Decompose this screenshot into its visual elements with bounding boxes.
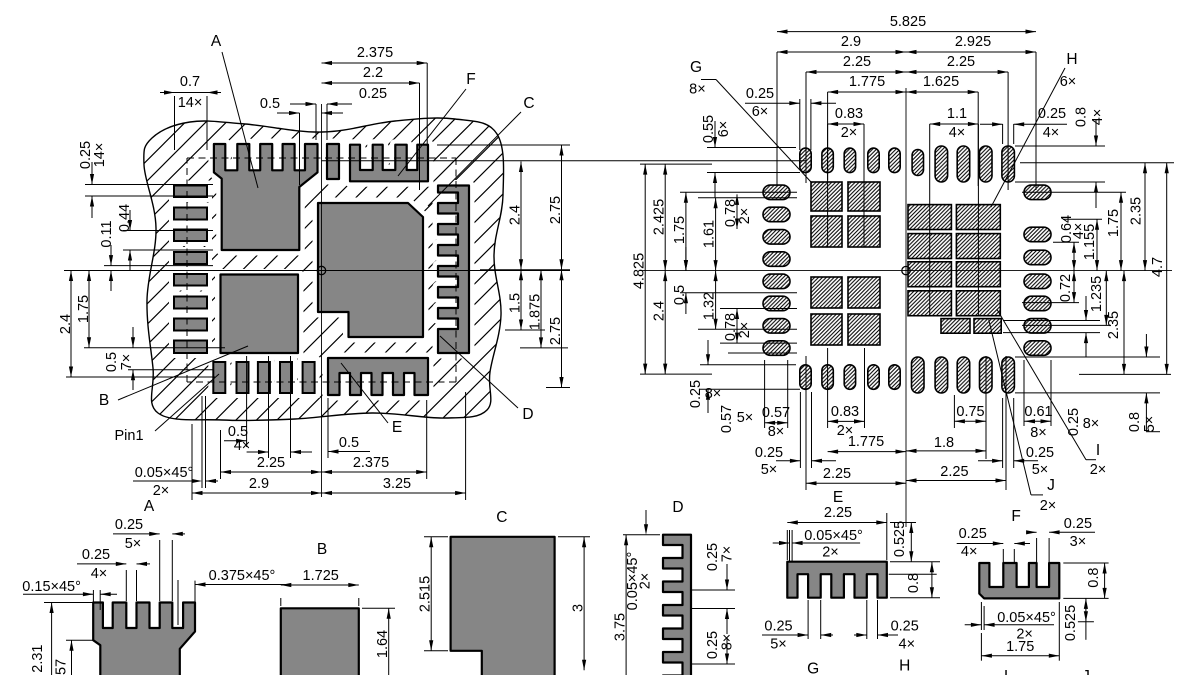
svg-text:B: B <box>99 392 109 409</box>
svg-text:2.35: 2.35 <box>1106 311 1122 339</box>
right view vertical centerline <box>905 88 907 527</box>
pad (small top center) <box>327 144 339 179</box>
label A leader <box>211 33 258 188</box>
dim 3.25 (bottom) <box>322 392 466 500</box>
svg-text:2×: 2× <box>737 322 753 339</box>
svg-text:7×: 7× <box>119 354 135 371</box>
dim 0.25 (top gap) <box>290 86 387 140</box>
svg-text:0.525: 0.525 <box>1063 605 1079 641</box>
svg-text:2×: 2× <box>822 545 839 561</box>
detail E dim 2.25 <box>787 505 887 560</box>
svg-text:F: F <box>1011 508 1020 525</box>
svg-text:0.72: 0.72 <box>1058 274 1074 302</box>
dim 1.32 (left lower) <box>698 271 797 330</box>
svg-text:H: H <box>1066 51 1077 68</box>
dim 1.1 4x (top) <box>930 106 979 316</box>
detail A dim 0.25 5x <box>113 517 185 601</box>
label F leader <box>398 71 476 176</box>
svg-text:0.7: 0.7 <box>180 74 200 90</box>
detail D pad <box>663 535 691 675</box>
svg-text:2.25: 2.25 <box>940 464 968 480</box>
svg-text:0.25: 0.25 <box>1064 516 1092 532</box>
svg-text:J: J <box>1082 668 1090 675</box>
svg-text:2.4: 2.4 <box>652 301 668 321</box>
dim 1.625 (top) <box>906 74 978 186</box>
svg-text:F: F <box>466 71 475 88</box>
svg-text:2.4: 2.4 <box>508 205 524 225</box>
svg-text:0.75: 0.75 <box>956 404 984 420</box>
svg-text:0.83: 0.83 <box>831 404 859 420</box>
svg-text:C: C <box>496 509 507 526</box>
svg-text:H: H <box>899 658 910 675</box>
detail D dim 0.25 7x <box>692 543 736 634</box>
svg-text:2×: 2× <box>153 483 170 499</box>
svg-text:0.57: 0.57 <box>762 405 790 421</box>
svg-text:0.5: 0.5 <box>339 435 359 451</box>
dim 1.61 (left upper) <box>698 198 797 271</box>
bottom pad row (5 small pads) <box>208 357 319 398</box>
svg-text:0.25: 0.25 <box>115 517 143 533</box>
detail D dim 3.75 <box>613 535 660 675</box>
svg-text:0.25: 0.25 <box>359 86 387 102</box>
svg-text:2.25: 2.25 <box>843 54 871 70</box>
svg-text:2×: 2× <box>638 573 654 590</box>
svg-text:0.57: 0.57 <box>54 659 70 675</box>
svg-text:0.05×45°: 0.05×45° <box>135 465 194 481</box>
svg-text:14×: 14× <box>178 95 203 111</box>
dim 0.5 (top) <box>260 96 343 185</box>
svg-text:5×: 5× <box>1032 462 1049 478</box>
detail A dim 0.25 4x <box>77 547 150 601</box>
svg-text:2.2: 2.2 <box>363 65 383 81</box>
svg-text:3×: 3× <box>1070 534 1087 550</box>
svg-text:2.35: 2.35 <box>1129 197 1145 225</box>
svg-text:A: A <box>144 498 155 515</box>
detail B dim 1.64 <box>362 608 395 675</box>
svg-text:E: E <box>392 419 402 436</box>
dim 2.25 (bottom-right) <box>906 356 1006 490</box>
svg-text:8×: 8× <box>1083 416 1100 432</box>
svg-text:0.25: 0.25 <box>764 619 792 635</box>
svg-text:5×: 5× <box>125 536 142 552</box>
svg-text:0.11: 0.11 <box>99 220 115 247</box>
dim 2.425 (left upper) <box>652 164 668 271</box>
svg-text:2.4: 2.4 <box>58 314 74 334</box>
label B leader <box>99 346 248 409</box>
svg-text:6×: 6× <box>1060 74 1077 90</box>
dim 2.4 (left lower) <box>652 271 668 375</box>
package body outline (hatched break-out blob) <box>144 118 504 421</box>
label D leader <box>440 336 534 423</box>
svg-text:0.05×45°: 0.05×45° <box>997 610 1056 626</box>
svg-text:0.25: 0.25 <box>1038 106 1066 122</box>
svg-text:2×: 2× <box>1040 498 1057 514</box>
svg-text:0.525: 0.525 <box>892 521 908 557</box>
detail E dim 0.25 4x (right) <box>854 600 919 653</box>
svg-text:7×: 7× <box>720 546 736 563</box>
svg-text:1.75: 1.75 <box>1006 639 1034 655</box>
svg-text:3.25: 3.25 <box>383 476 411 492</box>
dim 4.825 (far left) <box>632 164 712 374</box>
dim 1.775 (bottom) <box>828 434 906 454</box>
dim 1.155 (right upper) <box>1063 219 1102 270</box>
dim 0.78 2x (left upper) <box>723 194 753 229</box>
svg-text:5×: 5× <box>1142 416 1158 433</box>
dim 0.25 4x (top-right) <box>980 106 1067 144</box>
dim 2.4 (left) <box>58 271 215 378</box>
svg-text:2.75: 2.75 <box>548 196 564 224</box>
detail F title <box>1011 508 1020 525</box>
svg-text:0.25: 0.25 <box>688 380 704 408</box>
bottom pad row short (5x) <box>800 365 900 390</box>
dim 1.8 (bottom-right) <box>906 356 986 459</box>
detail C dim 3 <box>558 537 590 671</box>
label G leader <box>689 59 811 182</box>
svg-text:E: E <box>833 489 843 506</box>
svg-text:1.775: 1.775 <box>849 74 885 90</box>
svg-text:1.725: 1.725 <box>303 568 339 584</box>
svg-text:2.925: 2.925 <box>955 34 991 50</box>
svg-text:0.61: 0.61 <box>1024 404 1052 420</box>
svg-text:0.25: 0.25 <box>1066 408 1082 436</box>
svg-text:0.25: 0.25 <box>891 619 919 635</box>
pad D (right-side comb pad) <box>438 186 469 354</box>
svg-text:1.75: 1.75 <box>1106 209 1122 237</box>
svg-text:5×: 5× <box>761 462 778 478</box>
svg-text:4×: 4× <box>234 438 251 454</box>
svg-text:0.8: 0.8 <box>906 573 922 593</box>
dim 0.5 7x (left-bottom) <box>104 327 213 390</box>
label C leader <box>428 95 535 206</box>
svg-text:0.25: 0.25 <box>755 445 783 461</box>
svg-text:4×: 4× <box>1071 223 1087 240</box>
center-left square pads (8x) <box>811 182 880 345</box>
center-right small pads J (2x) <box>941 319 1001 334</box>
detail D dim 0.25 8x <box>692 631 736 664</box>
dim 1.775 (top) <box>828 74 906 180</box>
pad C (large center pad) <box>318 203 423 337</box>
svg-text:0.8: 0.8 <box>1086 568 1102 588</box>
svg-text:1.32: 1.32 <box>702 292 718 320</box>
dim 2.25 2.25 (top) <box>806 54 1008 190</box>
detail E dim 0.8 <box>889 562 940 598</box>
svg-text:0.8: 0.8 <box>1127 412 1143 432</box>
dim 1.875 (right) <box>520 270 568 348</box>
dim 0.25 8x (right, small pad height) <box>1003 296 1100 436</box>
svg-text:0.25: 0.25 <box>82 547 110 563</box>
dim 0.25 5x (bottom-right) <box>978 398 1054 478</box>
dim 0.83 2x (bottom) <box>828 348 865 439</box>
dim 0.25 8x (bottom-left) <box>688 340 800 413</box>
svg-text:0.8: 0.8 <box>1074 107 1090 127</box>
dim 0.61 8x (bottom-right) <box>1024 360 1053 441</box>
dim 0.78 2x (left lower) <box>720 309 797 344</box>
svg-text:2×: 2× <box>1090 462 1107 478</box>
dim 2.375 (bottom) <box>322 400 427 479</box>
svg-text:2.425: 2.425 <box>652 199 668 235</box>
dim 1.5 (right) <box>505 270 545 330</box>
detail F dim 0.05x45 2x <box>965 602 1056 643</box>
svg-text:1.5: 1.5 <box>508 293 524 313</box>
dim 2.35 (right upper) <box>1020 163 1174 271</box>
dim 0.11 (left) <box>99 220 213 291</box>
label H leader <box>991 51 1078 207</box>
dim 0.57 5x (bottom-left rot) <box>719 353 797 433</box>
svg-text:2.9: 2.9 <box>841 34 861 50</box>
dim 0.75 (bottom-right) <box>954 395 986 428</box>
view title J (cut) <box>1082 668 1090 675</box>
detail F dim 0.8 <box>1063 563 1108 598</box>
dim 0.44 (left) <box>117 204 213 270</box>
dim 0.25 14x (left pad height) <box>78 141 213 218</box>
dim 2.75 (upper right) <box>322 145 807 270</box>
detail F pad <box>979 563 1059 598</box>
svg-text:5×: 5× <box>770 637 787 653</box>
svg-text:4.7: 4.7 <box>1150 257 1166 277</box>
detail D dim 0.05x45 2x <box>625 510 654 610</box>
svg-text:6×: 6× <box>752 104 769 120</box>
svg-text:2×: 2× <box>841 125 858 141</box>
svg-text:14×: 14× <box>92 143 108 168</box>
pad B (bottom-left square pad) <box>221 275 299 354</box>
svg-text:0.375×45°: 0.375×45° <box>209 568 276 584</box>
svg-text:4×: 4× <box>91 566 108 582</box>
detail C title <box>496 509 507 526</box>
svg-text:1.61: 1.61 <box>702 220 718 248</box>
svg-text:0.25: 0.25 <box>1026 445 1054 461</box>
svg-text:3.75: 3.75 <box>613 613 629 641</box>
detail A dim 2.31 <box>30 603 93 675</box>
svg-text:I: I <box>1004 668 1008 675</box>
svg-text:A: A <box>211 33 222 50</box>
svg-text:2.31: 2.31 <box>30 644 46 672</box>
dim 5.825 <box>777 14 1036 190</box>
svg-text:1.75: 1.75 <box>672 216 688 244</box>
view title A <box>144 498 155 515</box>
dim 0.25 5x (bottom-left pads width) <box>755 392 836 478</box>
svg-text:2.9: 2.9 <box>249 476 269 492</box>
svg-text:Pin1: Pin1 <box>114 428 143 444</box>
dim 2.9 / 2.925 <box>777 34 1036 54</box>
dim 0.55 6x (top-left vertical) <box>701 115 800 198</box>
svg-text:2.515: 2.515 <box>418 576 434 612</box>
svg-text:2.375: 2.375 <box>357 45 393 61</box>
detail F dim 1.75 <box>981 602 1059 661</box>
dim 2.35 (right lower) <box>1079 271 1171 375</box>
dim 2.4 (right) <box>480 162 570 270</box>
view title G <box>807 661 819 675</box>
top pad row tall (4x 0.25x0.8) <box>935 146 1014 182</box>
dim 0.83 2x (top) <box>828 106 864 247</box>
dim 2.25 (bottom) <box>221 430 322 479</box>
view title H <box>899 658 910 675</box>
dim 0.25 6x (top-left) <box>745 86 836 150</box>
bottom pad row tall (5x 0.8) <box>912 357 1015 393</box>
dim 0.8 4x (top-right vertical) <box>1015 107 1106 208</box>
dim 2.375 (top) <box>322 45 428 190</box>
svg-text:5×: 5× <box>737 410 754 426</box>
svg-text:0.5: 0.5 <box>104 352 120 372</box>
dim 0.7 14x (top-left pad width) <box>160 74 221 150</box>
svg-text:4×: 4× <box>949 125 966 141</box>
view title I (cut) <box>1004 668 1008 675</box>
svg-text:1.875: 1.875 <box>528 294 544 330</box>
detail C pad <box>451 537 555 675</box>
detail E dim 0.25 5x (teeth) <box>762 600 833 653</box>
dim 1.75 (left upper) <box>672 192 797 270</box>
center-right pads H (8x wide) <box>908 205 1000 316</box>
dim 1.75 (left) <box>76 271 225 348</box>
svg-text:1.775: 1.775 <box>848 434 884 450</box>
svg-text:8×: 8× <box>768 424 785 440</box>
detail A dim 0.15x45 <box>22 579 117 610</box>
detail C dim 2.515 <box>418 537 448 651</box>
svg-text:1.64: 1.64 <box>375 630 391 658</box>
dim 0.72 (right lower) <box>1022 271 1079 303</box>
svg-text:0.15×45°: 0.15×45° <box>22 579 81 595</box>
svg-text:3: 3 <box>571 604 587 612</box>
dim 0.8 5x (right rot) <box>1015 334 1160 432</box>
label J leader <box>989 320 1057 514</box>
svg-text:4×: 4× <box>1043 125 1060 141</box>
svg-text:0.5: 0.5 <box>672 285 688 305</box>
dim 2.9 (bottom) <box>192 424 322 500</box>
top pad row short (6x 0.25x0.55) <box>800 148 924 175</box>
dim 1.235 (right lower) <box>1022 271 1111 326</box>
svg-text:1.235: 1.235 <box>1089 276 1105 312</box>
dim 2.2 (top) <box>322 65 420 85</box>
svg-text:4×: 4× <box>899 637 916 653</box>
detail A pad <box>93 603 195 675</box>
detail D title <box>672 499 683 516</box>
svg-text:0.44: 0.44 <box>117 204 133 232</box>
svg-text:0.25: 0.25 <box>746 86 774 102</box>
label Pin1 leader <box>114 374 219 444</box>
svg-text:8×: 8× <box>720 634 736 651</box>
svg-text:0.83: 0.83 <box>835 106 863 122</box>
svg-text:1.1: 1.1 <box>947 106 967 122</box>
detail F dim 0.25 3x (slots) <box>1026 516 1095 562</box>
dim 0.64 4x (right upper) <box>1053 215 1087 271</box>
label I leader <box>997 309 1106 478</box>
svg-text:2×: 2× <box>737 208 753 225</box>
dim 2.75 (lower right) <box>546 270 570 388</box>
dim 0.5 (left lower) <box>672 247 797 314</box>
detail E dim 0.05x45 2x <box>773 528 863 561</box>
svg-text:C: C <box>523 95 534 112</box>
svg-text:2.25: 2.25 <box>823 466 851 482</box>
svg-text:8×: 8× <box>1030 425 1047 441</box>
dashed package outline <box>187 158 456 382</box>
svg-text:4×: 4× <box>1090 109 1106 126</box>
pad A (top-left comb pad) <box>214 144 318 250</box>
dim 0.5 (bottom center) <box>328 398 370 458</box>
svg-text:J: J <box>1047 477 1055 494</box>
center mark circle <box>317 266 325 274</box>
detail F dim 0.25 4x (teeth) <box>957 526 1030 562</box>
svg-text:D: D <box>672 499 683 516</box>
svg-text:1.75: 1.75 <box>76 295 92 323</box>
svg-text:5.825: 5.825 <box>890 14 926 30</box>
detail E dim 0.525 <box>890 521 916 562</box>
svg-text:4×: 4× <box>961 544 978 560</box>
horizontal centerline <box>64 270 570 272</box>
right view center mark <box>902 266 910 274</box>
svg-text:0.5: 0.5 <box>260 96 280 112</box>
detail F dim 0.525 <box>1063 598 1094 641</box>
detail A dim 0.375x45 <box>178 568 290 625</box>
detail E pad <box>787 562 887 598</box>
pad F (top-right comb pad) <box>350 145 428 182</box>
svg-text:0.55: 0.55 <box>701 115 717 143</box>
svg-text:B: B <box>317 541 327 558</box>
dim 1.75 (right upper) <box>1022 192 1126 270</box>
svg-text:1.8: 1.8 <box>934 435 954 451</box>
detail B dim 1.725 <box>281 568 359 606</box>
svg-text:2.25: 2.25 <box>947 54 975 70</box>
right pad column (7x stadium) <box>1024 185 1051 355</box>
detail E title <box>833 489 843 506</box>
svg-text:I: I <box>1096 442 1100 459</box>
svg-text:2.25: 2.25 <box>257 455 285 471</box>
svg-text:2.375: 2.375 <box>353 455 389 471</box>
left pad column (8 small pads) <box>169 181 212 359</box>
dim 0.5 4x (bottom pads pitch) <box>224 356 312 458</box>
label E leader <box>341 363 402 436</box>
detail B pad <box>281 608 359 675</box>
right view horizontal centerline <box>640 270 1172 272</box>
left pad column G (8x stadium) <box>763 185 790 355</box>
svg-text:G: G <box>807 661 819 675</box>
detail B title <box>317 541 327 558</box>
svg-text:1.625: 1.625 <box>923 74 959 90</box>
dim 0.57 8x (bottom) <box>762 360 790 440</box>
svg-text:2.75: 2.75 <box>548 317 564 345</box>
svg-text:0.05×45°: 0.05×45° <box>804 528 863 544</box>
svg-text:8×: 8× <box>689 82 706 98</box>
svg-text:G: G <box>690 59 702 76</box>
pad E (bottom comb pad) <box>328 358 428 395</box>
svg-text:4.825: 4.825 <box>632 253 648 289</box>
dim 2.25 (bottom-left) <box>806 356 906 490</box>
dim 4.7 (far right) <box>1150 163 1169 375</box>
vertical centerline <box>321 104 323 497</box>
svg-text:2.25: 2.25 <box>824 505 852 521</box>
dim 0.05x45 2x (pin1 chamfer) <box>133 396 218 499</box>
svg-text:0.57: 0.57 <box>719 405 735 433</box>
svg-text:8×: 8× <box>705 386 722 402</box>
svg-text:0.25: 0.25 <box>959 526 987 542</box>
svg-text:D: D <box>522 406 533 423</box>
svg-text:6×: 6× <box>716 121 732 138</box>
